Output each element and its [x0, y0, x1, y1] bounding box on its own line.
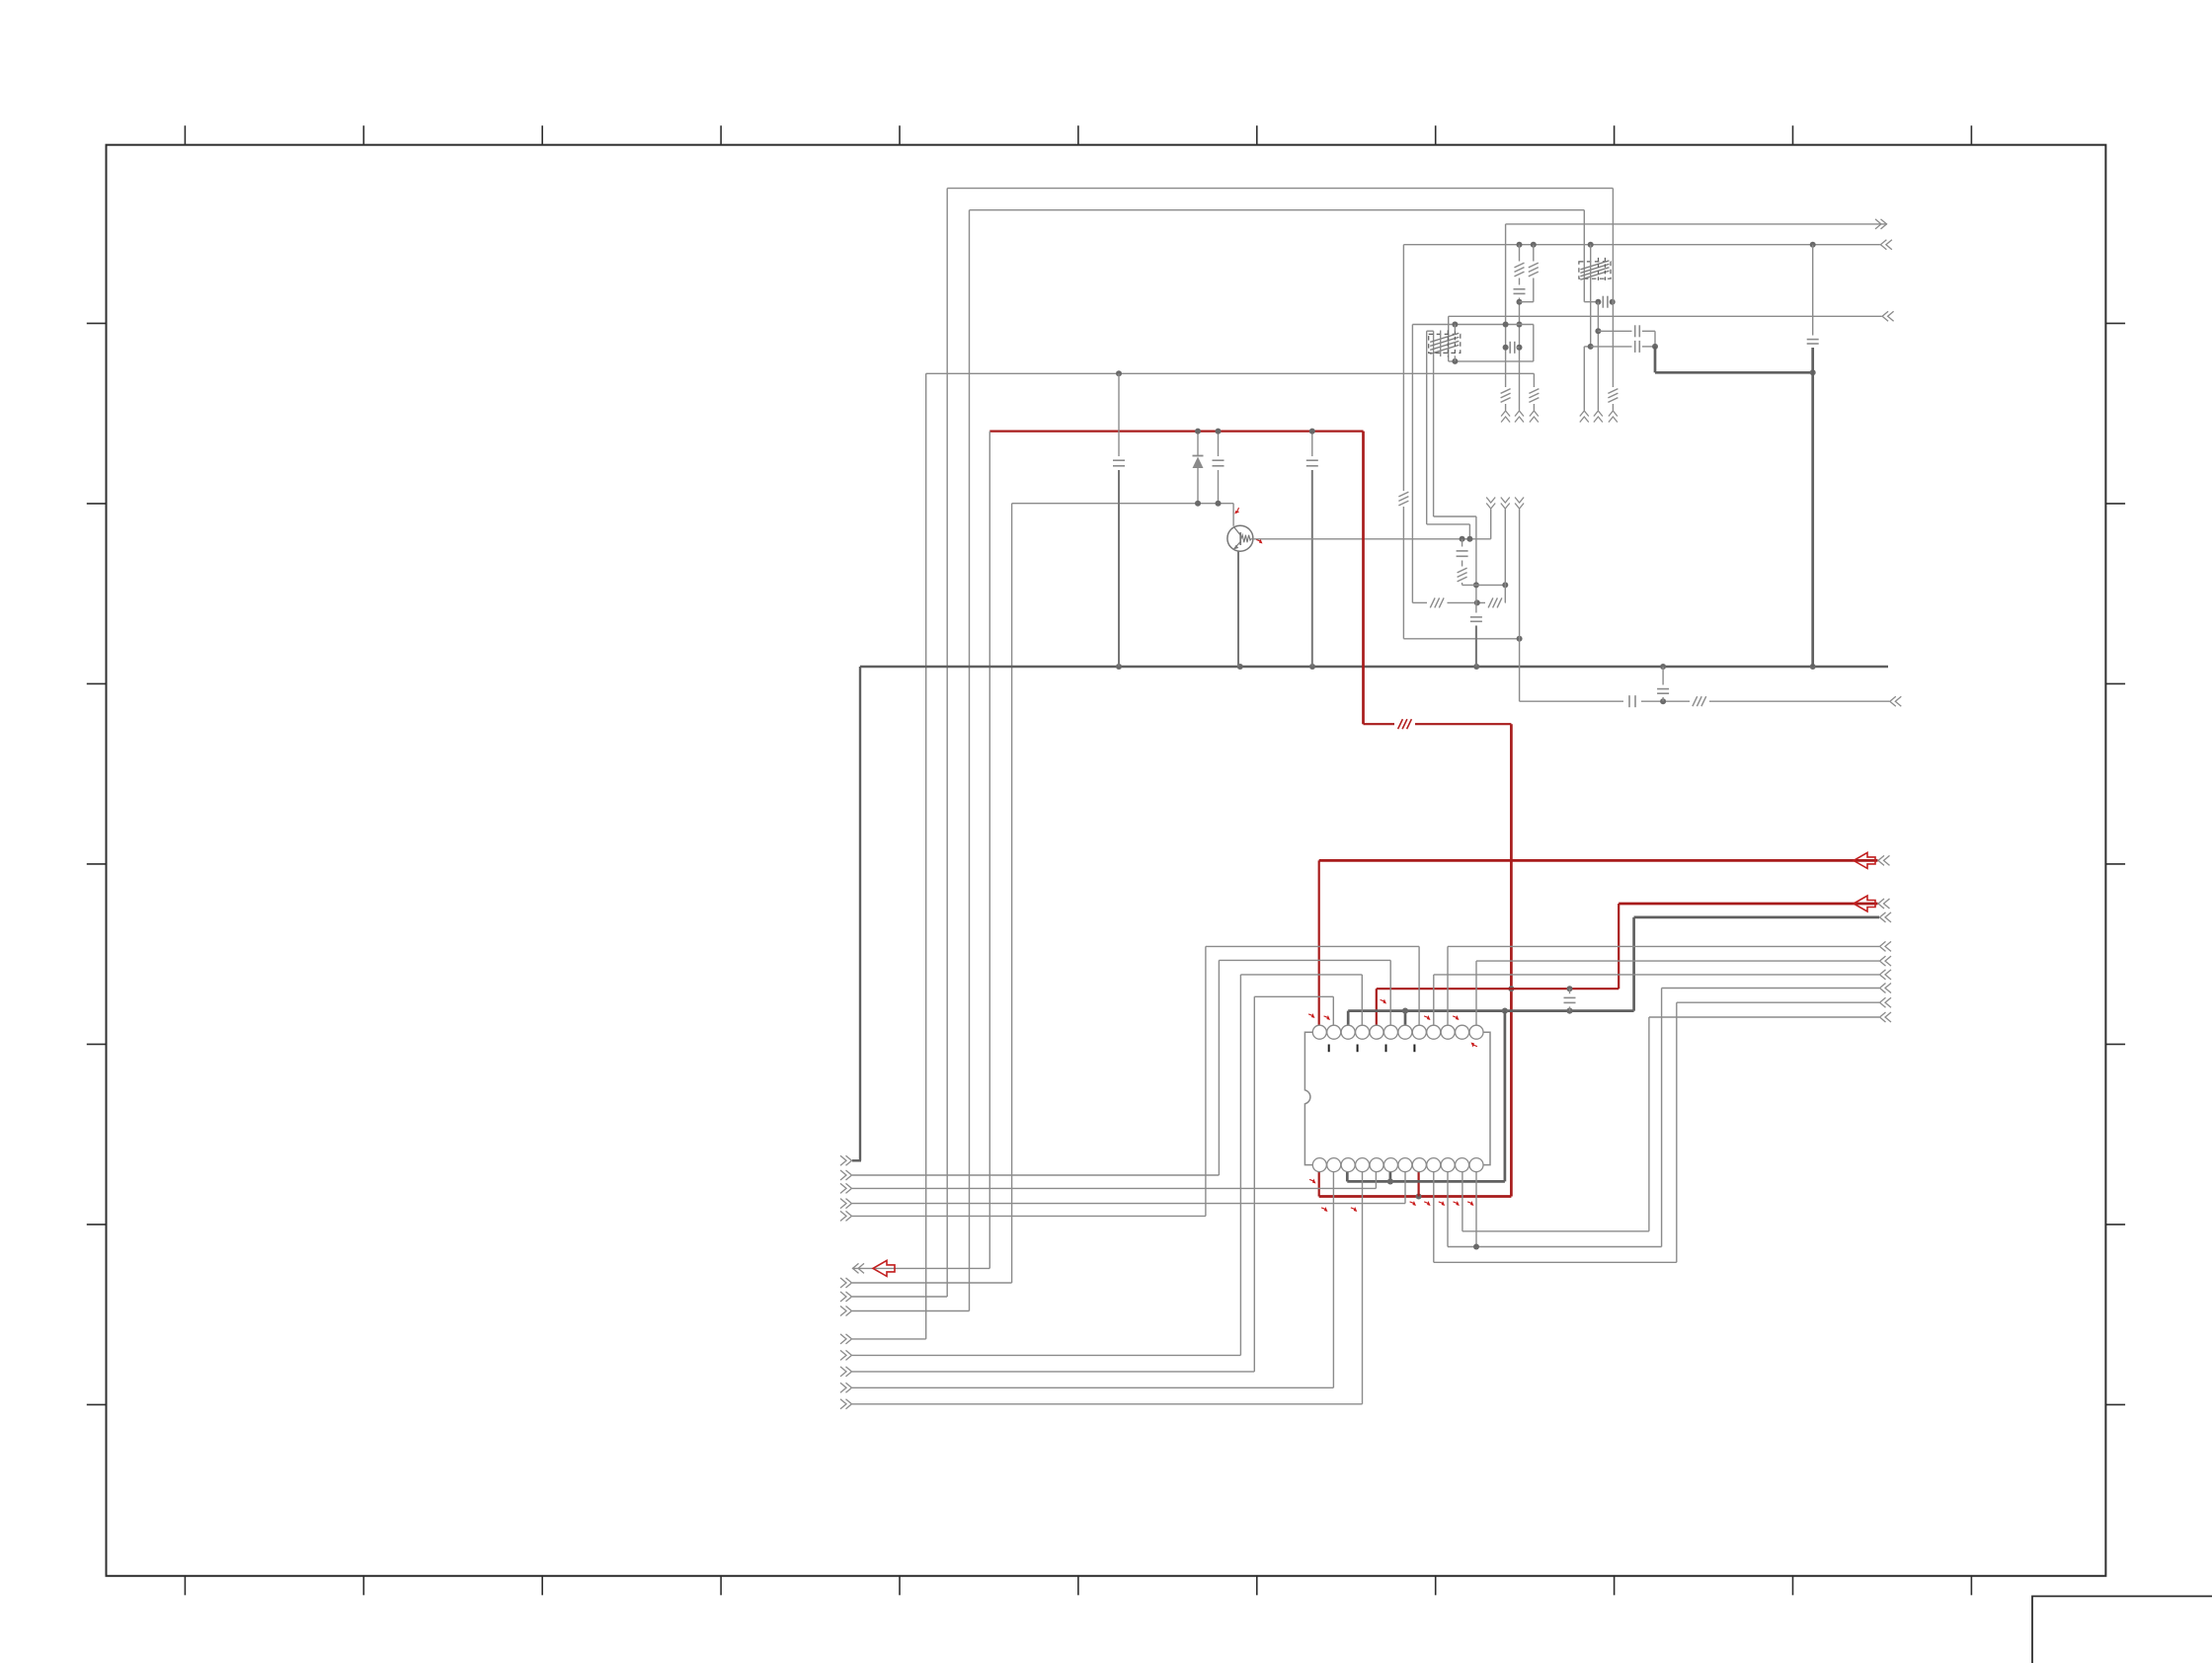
- wire x1553 lower with resistor: [1533, 373, 1535, 387]
- wire x1604 vertical from net2: [1583, 210, 1585, 302]
- transformer T2 dashed box: [1579, 262, 1611, 278]
- connector chevron left y320: [1882, 311, 1888, 321]
- thick wire from cap pair: [1654, 347, 1657, 372]
- junction x1610 y351: [1588, 344, 1594, 350]
- wire x1524 upper long vertical: [1505, 224, 1507, 387]
- thick rail y1024: [1348, 1009, 1633, 1012]
- red pin B1 lead: [1318, 1172, 1320, 1197]
- pin6 drop vertical: [1218, 960, 1220, 1175]
- junction x1538 y306: [1517, 299, 1523, 305]
- junction y647: [1517, 636, 1523, 642]
- junction x1495 y592: [1473, 582, 1479, 588]
- red wire right vertical: [1362, 432, 1365, 725]
- red indicator arrow 1: [1308, 1011, 1316, 1019]
- capacitor C-c top junction: [1309, 429, 1315, 435]
- junction y1196 x1408: [1387, 1178, 1393, 1184]
- ruler tick marks top and bottom edges: [185, 125, 1971, 1595]
- pin B11 staircase: [1461, 1172, 1463, 1231]
- junction x1618 y335: [1595, 328, 1601, 334]
- wire x1538 long drop: [1519, 510, 1521, 702]
- transformer T1 second lead: [1440, 331, 1442, 357]
- IC U1 body outline: [1304, 1032, 1490, 1164]
- capacitor inside box: [1506, 347, 1509, 349]
- connector row13 to pin B4 drop: [852, 1403, 1363, 1405]
- junction on rail x1835: [1810, 664, 1816, 670]
- pin B2 drop: [1332, 1172, 1334, 1388]
- capacitor C-b bottom junction: [1216, 501, 1222, 507]
- transformer T1 right lead stubs: [1454, 325, 1456, 332]
- red indicator arrow 7: [1309, 1177, 1317, 1185]
- junction rail y248 x1835: [1810, 242, 1816, 248]
- junction x1538 y352: [1517, 345, 1523, 351]
- junction box top x1473: [1452, 322, 1458, 328]
- connector chevron up x1618: [1594, 411, 1603, 417]
- wire x1633 long vertical with resistor: [1612, 189, 1614, 387]
- junction y710: [1660, 698, 1666, 704]
- series cap lower y351: [1591, 346, 1632, 348]
- thick vertical x1524: [1504, 1011, 1507, 1182]
- transformer T1 top jog: [1427, 330, 1434, 332]
- connector chevron down x1538: [1515, 498, 1524, 504]
- cap+resistor chain x1480: [1461, 539, 1463, 547]
- junction cap top y1001: [1567, 986, 1573, 991]
- connector row12 to pin B2 drop: [852, 1386, 1333, 1388]
- junction y306 right: [1610, 299, 1616, 305]
- junction on rail x1684: [1660, 664, 1666, 670]
- red indicator arrow 9: [1424, 1199, 1432, 1207]
- junction B12 y1263: [1473, 1244, 1479, 1250]
- capacitor C-a vertical chain: [1118, 373, 1120, 456]
- red indicator arrow 3: [1424, 1013, 1432, 1021]
- red wire bottom horizontal with resistor R-red: [1364, 723, 1395, 725]
- red arrow connector y915: [1854, 896, 1875, 911]
- junction cap left: [1503, 345, 1509, 351]
- connector chevron left y1015: [1880, 997, 1886, 1007]
- pin B5 wire: [1375, 1172, 1377, 1189]
- red indicator arrow 5: [1469, 1041, 1477, 1049]
- wire net5 horizontal y510: [1012, 503, 1234, 505]
- red pin B8 lead: [1417, 1172, 1419, 1197]
- wire net4 left vertical (below red corner): [988, 432, 990, 1269]
- wire x1451 vertical: [1433, 331, 1435, 516]
- IC U1 pin1 ticks: [1329, 1045, 1415, 1053]
- wire x1444 vertical: [1426, 331, 1428, 524]
- drawing border frame: [107, 145, 2106, 1576]
- wire x1836 vertical with cap: [1812, 245, 1814, 336]
- junction x1836 y377: [1810, 369, 1816, 375]
- connector chevron left y710: [1890, 696, 1896, 706]
- junction y1024 x1423: [1402, 1008, 1408, 1014]
- junction rail y248 x1552: [1531, 242, 1537, 248]
- pin4 riser: [1361, 975, 1363, 1026]
- wire x1524 lower segment: [1504, 510, 1506, 603]
- red junction x1436 y1211: [1416, 1194, 1422, 1200]
- connector row3 to pin B7: [852, 1203, 1405, 1205]
- node junction on y378 wire: [1116, 370, 1122, 376]
- junction x1488 on y546: [1466, 536, 1472, 542]
- red indicator arrow 6: [1380, 997, 1387, 1005]
- wire net1 top horizontal: [947, 188, 1613, 190]
- pin3 thick lead: [1347, 1011, 1350, 1026]
- connector chevron up x1538: [1515, 411, 1524, 417]
- red indicator arrow 4: [1453, 1013, 1461, 1021]
- red indicator arrow 14: [1351, 1205, 1359, 1213]
- wire x1618 drop: [1597, 302, 1599, 411]
- decoupling cap x1589: [1569, 989, 1571, 993]
- connector row2 to pin B5: [852, 1187, 1376, 1189]
- photo-IC bottom lead: [1237, 551, 1239, 667]
- red light arrow upper: [1233, 508, 1241, 515]
- junction on rail x1495: [1473, 664, 1479, 670]
- wire y592 horizontal: [1462, 584, 1506, 586]
- red wire top horizontal: [989, 431, 1363, 433]
- wire x1495 vertical: [1475, 516, 1477, 613]
- junction x1538 y328: [1517, 322, 1523, 328]
- thick bottom rail y1196: [1347, 1180, 1505, 1183]
- red indicator arrow 8: [1409, 1199, 1417, 1207]
- connector row0 thick rail connector: [846, 1155, 852, 1165]
- capacitor C-b top junction: [1216, 429, 1222, 435]
- junction rail y248 x1538: [1517, 242, 1523, 248]
- red wire y1001 horizontal: [1377, 988, 1619, 990]
- red arrow connector y871: [1854, 852, 1875, 868]
- pin B10 B12 staircase: [1447, 1172, 1449, 1247]
- pin4 drop vertical: [1239, 975, 1241, 1356]
- box loop around cap: [1412, 324, 1533, 326]
- pin6 riser: [1389, 960, 1391, 1026]
- pin2 riser: [1332, 996, 1334, 1026]
- connector chevron left y987: [1880, 970, 1886, 980]
- wire into photo-IC top: [1232, 504, 1234, 526]
- red pin1 lead: [1318, 860, 1320, 1026]
- pin9 riser to edge: [1433, 975, 1435, 1026]
- capacitor C-c: [1311, 432, 1313, 456]
- photo-IC Q1 internals: [1239, 532, 1241, 545]
- diode D1 top junction: [1195, 429, 1201, 435]
- connector row5 red-arrow output: [852, 1267, 989, 1269]
- wire x1430 vertical: [1411, 325, 1413, 603]
- red indicator arrow 2: [1323, 1013, 1331, 1021]
- transformer T1 dashed box: [1429, 334, 1461, 353]
- red junction x1530 y1001: [1508, 986, 1514, 991]
- junction on rail x1255: [1237, 664, 1243, 670]
- wire x1509 stub: [1490, 510, 1492, 539]
- wire x1488 drop: [1468, 524, 1470, 539]
- connector row10 to pin4 drop: [852, 1354, 1240, 1356]
- pin8 riser: [1418, 946, 1420, 1026]
- red pin5 lead: [1376, 989, 1378, 1026]
- photo-IC output wire y546: [1252, 538, 1490, 540]
- connector chevron down x1509: [1486, 498, 1495, 504]
- ruler tick marks left and right edges: [87, 323, 2125, 1404]
- wire net2 left vertical: [969, 210, 971, 1311]
- thick riser x1655: [1632, 917, 1635, 1011]
- wire net3 horizontal y378: [926, 372, 1535, 374]
- wire y523 horizontal: [1434, 515, 1476, 517]
- connector row8 to net2: [852, 1310, 970, 1312]
- connector chevron left y973: [1880, 956, 1886, 966]
- resistor column x1553: [1533, 245, 1535, 262]
- pin8 drop vertical: [1205, 946, 1207, 1216]
- pin B7 wire: [1404, 1172, 1406, 1204]
- thick wire y929 to edge: [1634, 916, 1879, 919]
- connector chevron up x1553: [1530, 411, 1539, 417]
- pin12 riser to edge: [1475, 961, 1477, 1026]
- red indicator arrow 10: [1439, 1199, 1447, 1207]
- wire y710 horizontal with cap and resistor: [1520, 700, 1623, 702]
- junction on y546 for cap chain: [1460, 536, 1465, 542]
- junction y592 end: [1502, 582, 1508, 588]
- connector row4 to pin8 drop: [852, 1215, 1206, 1217]
- series cap upper y335: [1598, 330, 1631, 332]
- junction on rail x1133: [1116, 664, 1122, 670]
- transformer T2 lead x1610: [1590, 245, 1592, 347]
- connector chevron left y958: [1880, 941, 1886, 951]
- wire y647 horizontal: [1403, 638, 1519, 640]
- junction y306 left: [1595, 299, 1601, 305]
- pin10 riser to edge: [1447, 946, 1449, 1026]
- ground rail horizontal y675: [860, 666, 1888, 668]
- red indicator arrow 12: [1467, 1199, 1475, 1207]
- connector row9 to net3: [852, 1338, 926, 1340]
- connector chevron left y1000: [1880, 984, 1886, 993]
- junction x1676 y351: [1652, 344, 1658, 350]
- red indicator arrow 11: [1453, 1199, 1461, 1207]
- wire net2 top horizontal: [970, 209, 1585, 211]
- junction y610: [1474, 599, 1480, 605]
- bus rail y320: [1449, 315, 1882, 317]
- connector row7 to net1: [852, 1296, 947, 1298]
- IC U1 top pin circles: [1312, 1025, 1483, 1039]
- red wire x1639 vertical: [1618, 904, 1619, 989]
- connector chevron left y929: [1880, 912, 1886, 922]
- wire net3 left vertical: [925, 373, 927, 1339]
- resistor pair line y610: [1412, 601, 1427, 603]
- jog from T2 lead to chevron column: [1584, 346, 1590, 348]
- diode D1: [1197, 432, 1199, 455]
- connector chevron left y248: [1880, 240, 1886, 250]
- ground rail left drop (thick): [859, 667, 861, 1160]
- wire y227 horizontal to edge: [1506, 223, 1887, 225]
- bus rail y248: [1403, 244, 1880, 246]
- title block corner box: [2032, 1596, 2212, 1663]
- pin B6 thick lead: [1389, 1172, 1392, 1182]
- junction on rail x1329: [1309, 664, 1315, 670]
- pin B3 thick lead: [1346, 1172, 1349, 1182]
- red arrow output row5: [873, 1260, 895, 1276]
- connector chevron up x1524: [1501, 411, 1510, 417]
- resistor column x1538: [1519, 245, 1521, 262]
- connector row1 to pin6 drop: [852, 1174, 1219, 1176]
- connector chevron up x1633: [1609, 411, 1618, 417]
- pin B12 lead: [1475, 1172, 1477, 1247]
- junction box bottom x1473: [1452, 358, 1458, 364]
- connector chevron left y1030: [1880, 1012, 1886, 1022]
- photo-IC Q1 circle: [1227, 525, 1253, 551]
- connector chevron down x1524: [1501, 498, 1510, 504]
- junction box top x1524: [1503, 322, 1509, 328]
- junction y1024 x1524: [1502, 1008, 1508, 1014]
- red light arrow lower: [1256, 537, 1264, 545]
- pin B9 staircase: [1433, 1172, 1435, 1263]
- wire net1 left vertical: [946, 189, 948, 1297]
- wire x1421 vertical with resistor: [1402, 245, 1404, 491]
- capacitor between rail and y710: [1662, 667, 1664, 685]
- diode D1 bottom junction: [1195, 501, 1201, 507]
- capacitor C-b: [1218, 432, 1220, 456]
- wire y531 horizontal: [1427, 523, 1470, 525]
- red wire y871 horizontal: [1319, 859, 1878, 862]
- connector row6 to net5: [852, 1282, 1012, 1284]
- IC U1 bottom pin circles: [1312, 1158, 1483, 1172]
- red wire y1211 horizontal: [1319, 1195, 1512, 1198]
- cap line y306: [1584, 301, 1601, 303]
- pin7 thick lead: [1404, 1011, 1407, 1026]
- red wire long vertical x1530: [1510, 724, 1513, 1196]
- pin B4 drop: [1362, 1172, 1364, 1404]
- red wire y915 horizontal: [1619, 903, 1877, 906]
- junction rail y248 x1610: [1588, 242, 1594, 248]
- junction y1024 x1589: [1566, 1008, 1572, 1014]
- red indicator arrow 13: [1321, 1205, 1329, 1213]
- connector chevron up x1604: [1580, 411, 1589, 417]
- connector chevron right y227: [1881, 219, 1887, 229]
- wire net5 left vertical: [1011, 504, 1013, 1283]
- pin2 drop vertical: [1253, 996, 1255, 1372]
- connector row11 to pin2 drop: [852, 1371, 1254, 1373]
